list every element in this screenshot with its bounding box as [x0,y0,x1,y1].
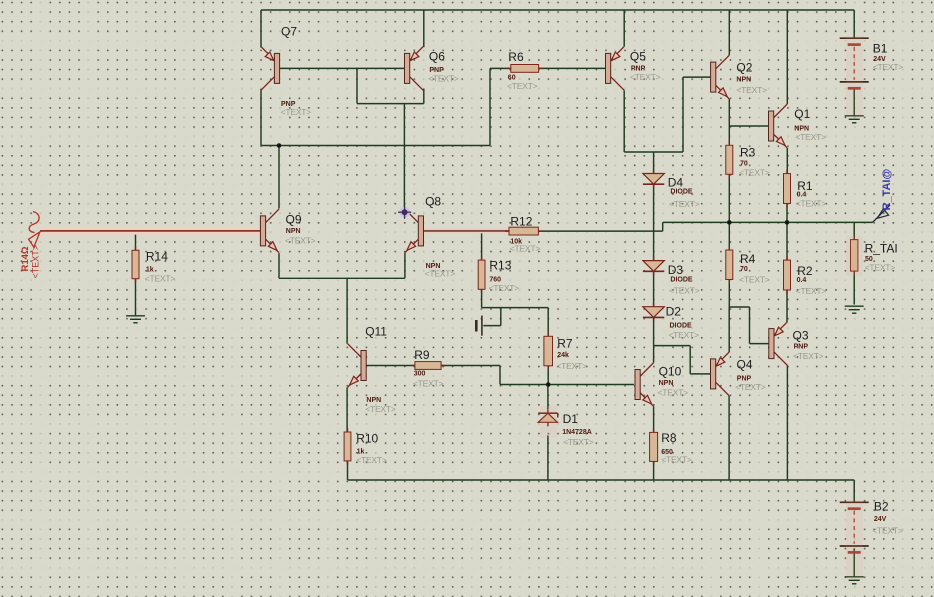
svg-text:<TEXT>: <TEXT> [413,379,444,389]
svg-text:R9: R9 [414,348,430,362]
svg-text:R14Ω: R14Ω [20,246,31,271]
svg-text:D2: D2 [666,305,682,319]
svg-text:PNP: PNP [794,344,809,351]
svg-text:0.4: 0.4 [797,277,807,284]
svg-text:0.4: 0.4 [797,192,807,199]
svg-text:D4: D4 [668,176,684,190]
svg-text:R10: R10 [356,432,378,446]
svg-text:R4: R4 [740,252,756,266]
svg-text:<TEXT>: <TEXT> [489,283,520,293]
svg-text:<TEXT>: <TEXT> [736,85,767,95]
svg-text:Q10: Q10 [659,365,682,379]
svg-text:300: 300 [414,371,426,378]
svg-text:<TEXT>: <TEXT> [873,62,904,72]
svg-text:B1: B1 [873,42,888,56]
svg-text:<TEXT>: <TEXT> [872,526,903,536]
svg-text:NPN: NPN [659,380,674,387]
svg-text:<TEXT>: <TEXT> [661,455,692,465]
svg-text:<TEXT>: <TEXT> [669,286,700,296]
svg-text:Q3: Q3 [793,329,809,343]
svg-text:<TEXT>: <TEXT> [865,263,896,273]
svg-text:R6: R6 [508,50,524,64]
svg-text:<TEXT>: <TEXT> [31,245,41,279]
svg-text:<TEXT>: <TEXT> [365,404,396,414]
svg-text:<TEXT>: <TEXT> [281,107,312,117]
svg-text:Q2: Q2 [736,61,752,75]
svg-text:1k: 1k [146,267,154,274]
svg-text:DIODE: DIODE [670,189,693,196]
svg-text:24V: 24V [874,516,887,523]
svg-text:<TEXT>: <TEXT> [739,275,770,285]
svg-text:<TEXT>: <TEXT> [507,81,538,91]
svg-text:<TEXT>: <TEXT> [739,168,770,178]
svg-text:<TEXT>: <TEXT> [428,74,459,84]
svg-text:Q8: Q8 [425,195,441,209]
svg-text:NPN: NPN [366,397,381,404]
svg-text:DIODE: DIODE [670,323,693,330]
svg-text:R14: R14 [146,250,168,264]
svg-text:R7: R7 [557,337,573,351]
svg-text:<TEXT>: <TEXT> [796,199,827,209]
svg-text:NPN: NPN [286,228,301,235]
svg-text:<TEXT>: <TEXT> [793,351,824,361]
svg-text:<TEXT>: <TEXT> [510,244,541,254]
svg-text:D1: D1 [563,412,579,426]
svg-text:R2: R2 [797,264,813,278]
svg-text:Q5: Q5 [630,50,646,64]
svg-text:<TEXT>: <TEXT> [356,455,387,465]
svg-text:R_TAI: R_TAI [865,242,898,256]
svg-text:R12: R12 [510,215,532,229]
svg-text:B2: B2 [874,500,889,514]
svg-text:<TEXT>: <TEXT> [795,132,826,142]
svg-text:Q6: Q6 [429,50,445,64]
svg-text:70: 70 [740,266,748,273]
svg-text:NPN: NPN [736,77,751,84]
svg-text:<TEXT>: <TEXT> [735,382,766,392]
svg-text:<TEXT>: <TEXT> [630,72,661,82]
svg-text:<TEXT>: <TEXT> [563,437,594,447]
svg-text:DIODE: DIODE [670,277,693,284]
svg-text:R8: R8 [661,431,677,445]
svg-text:Q1: Q1 [794,107,810,121]
svg-text:<TEXT>: <TEXT> [425,269,456,279]
svg-text:<TEXT>: <TEXT> [145,274,176,284]
svg-text:<TEXT>: <TEXT> [556,361,587,371]
svg-text:<TEXT>: <TEXT> [796,286,827,296]
svg-text:24k: 24k [557,352,569,359]
svg-text:Q9: Q9 [286,213,302,227]
svg-text:R_TAI@: R_TAI@ [881,169,893,211]
svg-text:Q7: Q7 [281,25,297,39]
svg-text:R13: R13 [489,259,511,273]
svg-text:R3: R3 [740,146,756,160]
svg-text:D3: D3 [668,263,684,277]
svg-text:<TEXT>: <TEXT> [658,388,689,398]
svg-text:70: 70 [740,161,748,168]
svg-text:Q4: Q4 [737,358,753,372]
svg-text:Q11: Q11 [365,325,387,339]
svg-text:<TEXT>: <TEXT> [285,236,316,246]
svg-text:<TEXT>: <TEXT> [669,199,700,209]
svg-text:1N4728A: 1N4728A [562,429,592,436]
svg-text:<TEXT>: <TEXT> [668,330,699,340]
